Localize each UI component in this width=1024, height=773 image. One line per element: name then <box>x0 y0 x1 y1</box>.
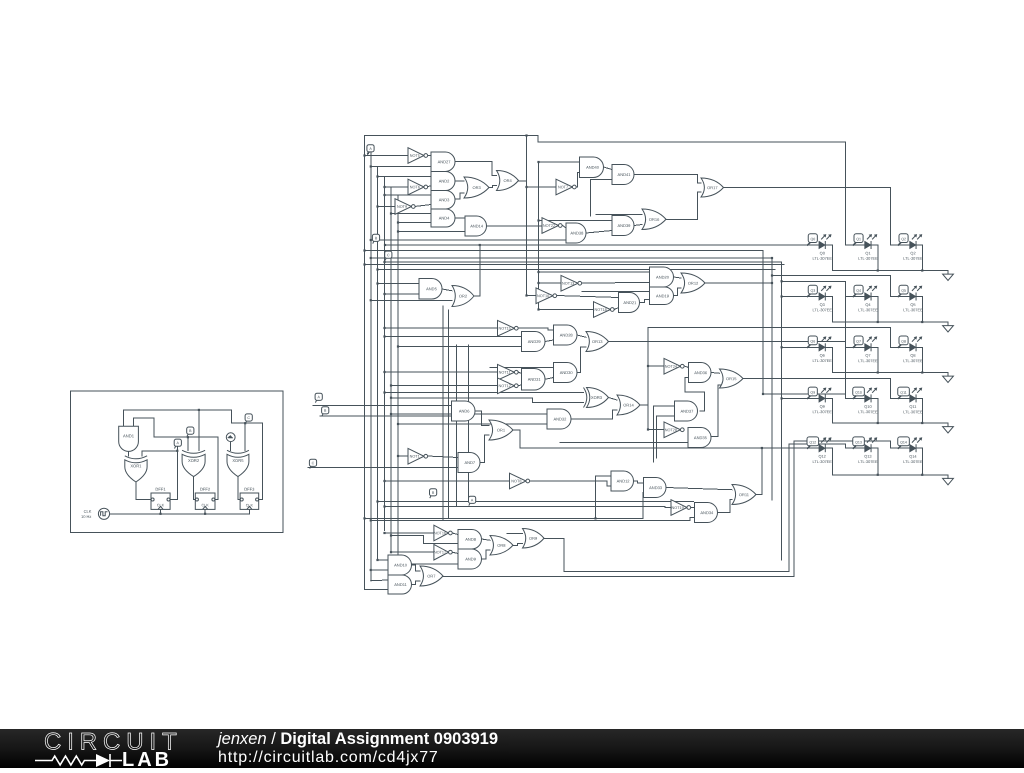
svg-text:Q0: Q0 <box>820 250 826 255</box>
svg-text:LAB: LAB <box>122 749 172 769</box>
svg-text:Q8: Q8 <box>901 340 906 344</box>
svg-text:NOT15: NOT15 <box>499 327 511 331</box>
svg-text:LTL-307EE: LTL-307EE <box>903 256 923 261</box>
svg-text:C: C <box>387 253 390 257</box>
svg-text:LTL-307EE: LTL-307EE <box>903 358 923 363</box>
svg-text:Q13: Q13 <box>864 454 871 459</box>
svg-text:OR2: OR2 <box>459 293 468 298</box>
svg-text:LTL-307EE: LTL-307EE <box>903 459 923 464</box>
svg-text:Q7: Q7 <box>865 353 870 358</box>
svg-text:CLK: CLK <box>157 503 165 507</box>
svg-text:AND34: AND34 <box>700 510 714 515</box>
svg-text:NOT6: NOT6 <box>410 185 420 189</box>
svg-text:Q14: Q14 <box>909 454 917 459</box>
svg-text:Q1: Q1 <box>865 250 870 255</box>
svg-text:Q10: Q10 <box>864 404 872 409</box>
svg-text:OR4: OR4 <box>503 178 512 183</box>
svg-text:OR14: OR14 <box>623 403 634 408</box>
svg-text:LTL-307EE: LTL-307EE <box>858 358 878 363</box>
svg-text:LTL-307EE: LTL-307EE <box>858 409 878 414</box>
svg-text:NOT18: NOT18 <box>595 308 607 312</box>
svg-text:AND7: AND7 <box>465 460 476 465</box>
svg-text:Q6: Q6 <box>820 353 825 358</box>
svg-text:AND41: AND41 <box>618 172 632 177</box>
svg-text:Q1: Q1 <box>856 237 861 241</box>
svg-text:LTL-307EE: LTL-307EE <box>812 409 832 414</box>
svg-text:Q11: Q11 <box>900 391 907 395</box>
svg-text:AND29: AND29 <box>528 339 542 344</box>
svg-text:OR1: OR1 <box>497 427 506 432</box>
svg-text:Q12: Q12 <box>809 440 816 444</box>
svg-text:OR16: OR16 <box>649 217 660 222</box>
svg-text:AND21: AND21 <box>623 300 637 305</box>
svg-text:AND28: AND28 <box>560 333 574 338</box>
svg-text:NOT1: NOT1 <box>410 455 420 459</box>
svg-text:AND12: AND12 <box>617 479 631 484</box>
svg-text:CLK: CLK <box>246 503 254 507</box>
svg-text:Q3: Q3 <box>820 302 825 307</box>
svg-text:LTL-307EE: LTL-307EE <box>812 459 832 464</box>
svg-text:AND2: AND2 <box>439 178 450 183</box>
svg-text:AND11: AND11 <box>394 582 407 587</box>
svg-text:AND5: AND5 <box>426 286 437 291</box>
svg-text:AND31: AND31 <box>528 377 542 382</box>
svg-text:OR17: OR17 <box>707 185 718 190</box>
svg-text:NOT12: NOT12 <box>499 384 511 388</box>
svg-text:AND30: AND30 <box>560 370 574 375</box>
svg-text:OR13: OR13 <box>592 339 603 344</box>
svg-text:Q9: Q9 <box>810 391 815 395</box>
svg-text:AND4: AND4 <box>439 215 450 220</box>
svg-text:NOT17: NOT17 <box>434 551 446 555</box>
svg-text:AND35: AND35 <box>694 435 708 440</box>
svg-text:Q12: Q12 <box>818 454 825 459</box>
svg-text:NOT22: NOT22 <box>543 224 555 228</box>
svg-text:OR8: OR8 <box>497 543 506 548</box>
svg-text:OR15: OR15 <box>726 376 737 381</box>
svg-text:LTL-307EE: LTL-307EE <box>813 307 833 312</box>
svg-text:Q14: Q14 <box>900 441 907 445</box>
svg-text:C: C <box>247 416 250 420</box>
svg-text:10 Hz: 10 Hz <box>81 514 91 519</box>
svg-text:LTL-307EE: LTL-307EE <box>903 409 923 414</box>
svg-text:Q4: Q4 <box>865 302 871 307</box>
svg-text:Q13: Q13 <box>855 440 862 444</box>
svg-text:Q2: Q2 <box>910 251 915 256</box>
svg-text:Q3: Q3 <box>810 289 815 293</box>
svg-text:NOT9: NOT9 <box>397 205 407 209</box>
svg-text:Q5: Q5 <box>910 302 915 307</box>
svg-text:OR9: OR9 <box>529 536 538 541</box>
svg-text:NOT13: NOT13 <box>562 282 574 286</box>
svg-text:NOT16: NOT16 <box>434 531 446 535</box>
svg-text:NOT11: NOT11 <box>499 371 511 375</box>
svg-text:NOT19: NOT19 <box>672 506 684 510</box>
svg-text:AND32: AND32 <box>553 417 567 422</box>
svg-text:Q6: Q6 <box>810 340 815 344</box>
svg-text:Q10: Q10 <box>855 391 862 395</box>
svg-text:Q7: Q7 <box>856 340 861 344</box>
svg-text:AND3: AND3 <box>439 197 450 202</box>
svg-text:DFF3: DFF3 <box>244 487 255 492</box>
svg-text:AND14: AND14 <box>470 223 484 228</box>
svg-text:OR7: OR7 <box>427 573 436 578</box>
svg-text:AND36: AND36 <box>694 370 708 375</box>
svg-text:LTL-307EE: LTL-307EE <box>813 256 833 261</box>
svg-text:AND10: AND10 <box>394 562 408 567</box>
svg-text:Q11: Q11 <box>909 404 916 409</box>
svg-text:Q8: Q8 <box>910 353 915 358</box>
svg-text:LTL-307EE: LTL-307EE <box>858 459 878 464</box>
svg-text:Q9: Q9 <box>820 404 825 409</box>
svg-text:LTL-307EE: LTL-307EE <box>858 256 878 261</box>
svg-text:AND8: AND8 <box>465 537 476 542</box>
svg-text:XOR3: XOR3 <box>591 395 603 400</box>
svg-text:OR3: OR3 <box>472 185 481 190</box>
svg-text:DFF2: DFF2 <box>200 487 211 492</box>
svg-text:Q4: Q4 <box>856 289 861 293</box>
svg-text:AND1: AND1 <box>123 433 135 438</box>
svg-text:OR12: OR12 <box>688 281 699 286</box>
svg-text:CLK: CLK <box>201 503 209 507</box>
svg-text:NOT10: NOT10 <box>537 294 549 298</box>
svg-text:LTL-307EE: LTL-307EE <box>858 307 878 312</box>
svg-text:XOR1: XOR1 <box>130 463 142 468</box>
svg-text:LTL-307EE: LTL-307EE <box>903 307 923 312</box>
svg-text:LTL-307EE: LTL-307EE <box>813 358 833 363</box>
svg-text:AND9: AND9 <box>465 556 476 561</box>
svg-text:AND6: AND6 <box>459 408 470 413</box>
svg-text:NOT7: NOT7 <box>558 185 568 189</box>
svg-text:NOT8: NOT8 <box>511 479 521 483</box>
svg-text:NOT5: NOT5 <box>410 154 420 158</box>
svg-text:AND38: AND38 <box>570 231 584 236</box>
svg-text:OR11: OR11 <box>739 492 750 497</box>
svg-text:XOR2: XOR2 <box>188 458 200 463</box>
svg-text:AND19: AND19 <box>656 293 670 298</box>
svg-text:XOR5: XOR5 <box>232 458 244 463</box>
svg-text:NOT24: NOT24 <box>665 365 677 369</box>
svg-text:Q2: Q2 <box>901 237 906 241</box>
svg-text:C: C <box>312 461 315 465</box>
svg-text:AND20: AND20 <box>656 275 670 280</box>
svg-text:AND39: AND39 <box>618 223 632 228</box>
svg-text:NOT28: NOT28 <box>665 428 677 432</box>
svg-text:Q0: Q0 <box>810 237 815 241</box>
svg-text:AND40: AND40 <box>586 165 600 170</box>
svg-text:AND33: AND33 <box>649 485 663 490</box>
svg-text:DFF1: DFF1 <box>155 487 166 492</box>
svg-text:Q5: Q5 <box>901 289 906 293</box>
svg-text:AND27: AND27 <box>438 159 452 164</box>
svg-text:AND37: AND37 <box>680 409 694 414</box>
